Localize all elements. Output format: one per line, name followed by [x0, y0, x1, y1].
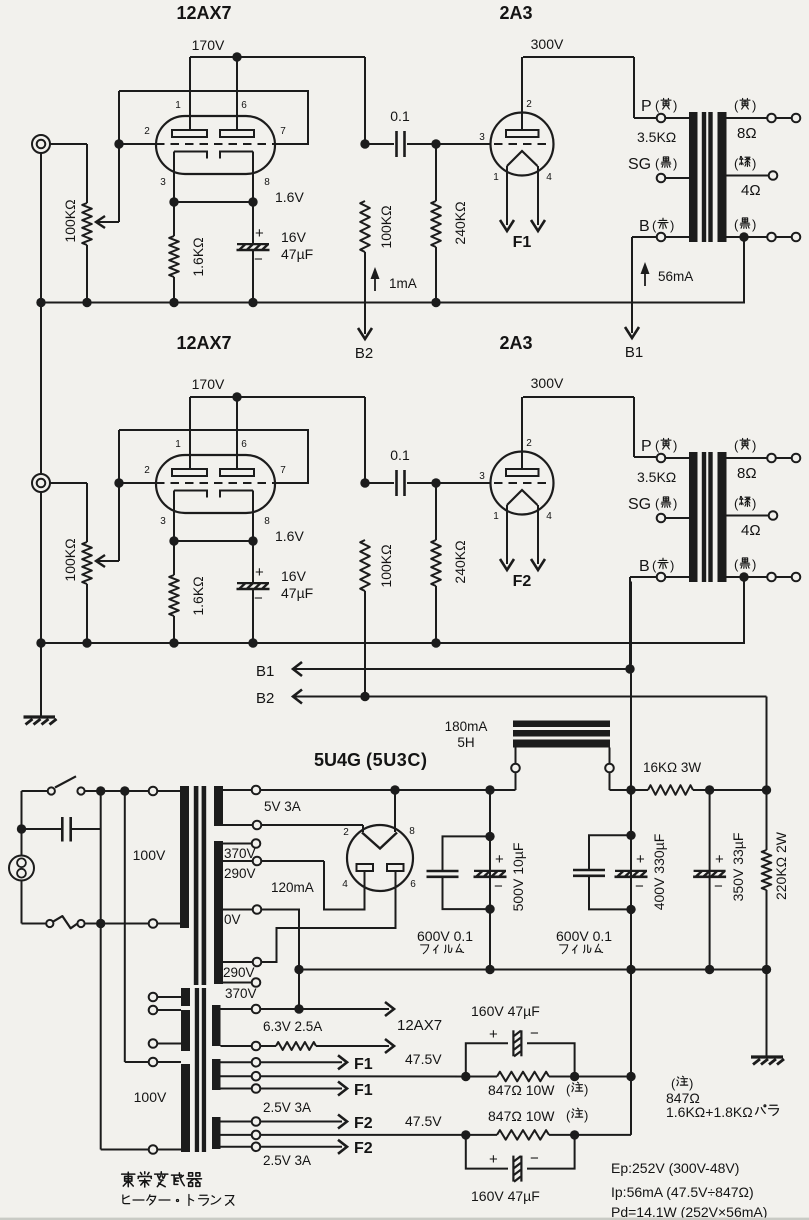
capacitor C2 0.1 coupling	[397, 470, 405, 496]
wire plate lead pin1 ch1	[189, 57, 191, 130]
junction hum1 left	[461, 1072, 470, 1081]
wire grid tie loop pins 2-7 ch1	[119, 91, 308, 144]
svg-text:): )	[752, 496, 756, 511]
terminal HT 6.3V top	[252, 1005, 261, 1014]
junction hum2 right	[570, 1130, 579, 1139]
terminal OPT2 B	[657, 573, 666, 582]
wire plate node drop ch1	[364, 57, 366, 144]
junction 2A3 grid node ch1	[431, 139, 440, 148]
resistor RL1 100K plate load body	[360, 201, 370, 252]
svg-text:370V: 370V	[224, 846, 256, 861]
tube V3 2A3 filament	[507, 151, 538, 166]
note mark RH1	[566, 1082, 588, 1097]
svg-text:(: (	[734, 496, 739, 511]
wire filament lead pin1 ch1	[506, 166, 508, 225]
wire choke right lead down	[609, 772, 611, 790]
svg-text:4: 4	[546, 511, 552, 522]
terminal OPT1 8ohm	[767, 114, 776, 123]
svg-text:2: 2	[526, 438, 532, 449]
wire OPT1 SG to winding	[666, 177, 690, 179]
svg-text:2: 2	[144, 126, 150, 137]
ground symbol main earth	[24, 717, 57, 725]
svg-text:47.5V: 47.5V	[405, 1113, 442, 1129]
tube V1 12AX7 grid dashed	[156, 143, 275, 145]
junction bus Rk ch1	[169, 298, 178, 307]
junction pin8 drop	[390, 785, 399, 794]
wire fuse to transformer primary bottom	[85, 923, 149, 925]
svg-text:F2: F2	[354, 1140, 373, 1157]
wire OPT2 B terminal to B1 drop	[630, 576, 657, 578]
junction B2 node	[762, 785, 771, 794]
terminal HT primary bottom	[149, 1145, 158, 1154]
junction 330uF on ground bus	[626, 965, 635, 974]
arrow filament F2 left	[500, 559, 514, 570]
svg-text:8: 8	[264, 516, 270, 527]
wire filament lead pin4 ch1	[537, 166, 539, 225]
svg-text:600V 0.1: 600V 0.1	[556, 928, 612, 944]
wire grid tie loop pins 2-7 ch2	[119, 430, 308, 483]
capacitor Ck1 47uF	[237, 244, 270, 250]
svg-text:0V: 0V	[224, 912, 241, 927]
wire heater resistor to arrow	[316, 1045, 389, 1047]
junction film cap2 top	[626, 831, 635, 840]
terminal PT 0V center tap	[253, 905, 262, 914]
svg-text:−: −	[714, 878, 723, 895]
input jack J2	[32, 474, 50, 492]
svg-text:350V 33µF: 350V 33µF	[730, 833, 746, 902]
arrow 6.3V to 12AX7 heaters top	[385, 1002, 394, 1016]
svg-text:2: 2	[526, 99, 532, 110]
switch SW power	[48, 776, 85, 794]
wire OPT2 B down to B1 line	[629, 577, 631, 669]
junction grid node ch2	[114, 478, 123, 487]
svg-text:170V: 170V	[192, 376, 225, 392]
svg-text:0.1: 0.1	[390, 447, 410, 463]
label OPT2 P yellow	[655, 438, 677, 453]
svg-text:(: (	[655, 496, 660, 511]
wire C1 to 2A3 grid node	[407, 143, 436, 145]
wire plate to C2 coupling	[365, 482, 394, 484]
svg-text:47µF: 47µF	[281, 246, 313, 262]
wire jack J2 sleeve to ground bus	[40, 492, 42, 643]
svg-text:370V: 370V	[225, 986, 257, 1001]
terminal HT tap unused 1	[149, 993, 158, 1002]
arrow B2 to channels	[293, 690, 302, 704]
output transformer T2 secondary winding bar	[718, 112, 727, 242]
resistor RH2 847ohm body	[497, 1130, 549, 1140]
wire to heater primary top	[125, 1061, 149, 1063]
capacitor line snubber	[62, 817, 70, 842]
tube V4 2A3 envelope	[491, 452, 554, 515]
wire 300V rail drop to OPT P ch1	[633, 57, 635, 118]
AC plug symbol	[9, 856, 34, 881]
svg-text:12AX7: 12AX7	[397, 1017, 442, 1034]
svg-text:1: 1	[175, 439, 181, 450]
wire cathode junction row ch2	[174, 540, 253, 542]
wire grid node to pin2 ch2	[119, 482, 156, 484]
wire film cap1 bottom loop	[443, 877, 491, 909]
wire AC branch vertical left	[100, 791, 102, 1150]
wire choke left lead up	[515, 748, 517, 764]
wire OPT1 common to ground bus	[743, 242, 745, 303]
wire OPT2 common tap	[727, 576, 768, 578]
svg-text:F1: F1	[513, 234, 532, 251]
svg-text:1: 1	[175, 100, 181, 111]
wire Ck1 top lead	[252, 202, 254, 243]
svg-text:2: 2	[144, 465, 150, 476]
wire Rg2 top lead	[435, 483, 437, 540]
terminal HT F1 top	[252, 1058, 261, 1067]
wire RL2 bottom to B2 line	[364, 591, 366, 697]
wire OPT2 B to winding	[666, 576, 690, 578]
svg-text:3: 3	[160, 177, 166, 188]
wire 300V rail ch2	[523, 396, 634, 398]
svg-text:+: +	[255, 564, 264, 581]
wire snubber cap right lead	[72, 828, 101, 830]
wire wiper VR1	[98, 221, 119, 223]
wire choke out to B1 node	[610, 789, 632, 791]
wire hum1 cap left	[466, 1043, 508, 1076]
wire F1 bottom	[260, 1088, 342, 1090]
terminal OPT2 4ohm	[769, 511, 778, 520]
wire OPT2 common to ground bus	[743, 582, 745, 644]
wire B2 riser	[766, 697, 768, 791]
resistor Rg2 240K body	[431, 540, 441, 586]
wire F1 center tap to hum network	[260, 1075, 466, 1077]
output transformer T2 primary winding bar	[689, 112, 698, 242]
terminal PT 5V bottom	[253, 821, 262, 830]
wire 0V center tap to ground and heater	[261, 910, 299, 1010]
svg-text:160V 47µF: 160V 47µF	[471, 1188, 540, 1204]
svg-text:−: −	[530, 1025, 539, 1042]
svg-text:16V: 16V	[281, 229, 307, 245]
svg-text:47.5V: 47.5V	[405, 1051, 442, 1067]
svg-text:(: (	[734, 217, 739, 232]
wire AC bottom to fuse	[22, 923, 47, 925]
svg-text:8Ω: 8Ω	[737, 125, 757, 142]
wire RL1 bottom to B2 tail	[364, 252, 366, 334]
junction bus jack ch1	[36, 298, 45, 307]
svg-text:0.1: 0.1	[390, 108, 410, 124]
tube V1 12AX7 plates	[172, 130, 254, 137]
tube V3 2A3 grid dashed	[494, 143, 550, 145]
junction 2A3 grid node ch2	[431, 478, 440, 487]
wire OPT1 common out	[776, 236, 792, 238]
svg-text:(: (	[671, 1076, 676, 1091]
svg-text:(: (	[652, 218, 657, 233]
junction 6.3V grounded side	[294, 1004, 303, 1013]
junction cathode pin3 ch2	[169, 536, 178, 545]
svg-text:B: B	[639, 558, 650, 575]
svg-text:8: 8	[409, 826, 415, 837]
junction OPT2 common ground	[739, 572, 748, 581]
svg-text:3: 3	[479, 471, 485, 482]
wire pot VR2 bottom to ground bus	[86, 584, 88, 643]
svg-text:): )	[752, 98, 756, 113]
wire Rk1 top lead	[173, 202, 175, 236]
svg-text:400V 330µF: 400V 330µF	[651, 834, 667, 911]
svg-text:1: 1	[493, 172, 499, 183]
svg-text:): )	[752, 156, 756, 171]
svg-text:+: +	[636, 851, 645, 868]
svg-text:290V: 290V	[224, 866, 256, 881]
output transformer T2 core	[702, 112, 713, 242]
svg-text:3: 3	[479, 132, 485, 143]
terminal OPT1 SG	[657, 174, 666, 183]
label heater transformer maker	[122, 1172, 202, 1187]
junction OPT1 common ground	[739, 232, 748, 241]
wire B2 distribution line	[293, 696, 767, 698]
terminal PT 5V top	[252, 786, 261, 795]
tube V5 5U4G plates	[357, 864, 404, 871]
label OPT2 sec green	[734, 496, 756, 511]
svg-text:56mA: 56mA	[658, 269, 693, 284]
wire B1 riser OPT2-B to B1 line	[630, 582, 632, 665]
junction bus pot ch1	[82, 298, 91, 307]
tube V2 12AX7 grid dashed	[156, 482, 275, 484]
resistor Rk2 1.6K body	[169, 575, 179, 616]
junction RL2 on B2 line	[360, 692, 369, 701]
terminal choke right	[605, 764, 614, 773]
tube V1 12AX7 cathodes	[174, 152, 253, 159]
svg-text:500V 10µF: 500V 10µF	[510, 843, 526, 912]
label OPT2 B red	[652, 558, 674, 573]
wire jack J1 sleeve to ground bus	[40, 153, 42, 303]
svg-text:+: +	[495, 851, 504, 868]
wire snubber cap left lead	[22, 828, 62, 830]
label CM1 film	[421, 944, 464, 953]
tube V4 2A3 plate	[506, 469, 539, 476]
svg-text:120mA: 120mA	[271, 880, 314, 895]
terminal OPT2 speaker+	[792, 454, 801, 463]
wire plate lead pin1 ch2	[189, 397, 191, 469]
arrow filament F1 right	[531, 220, 545, 231]
wire to heater primary bottom	[101, 1149, 149, 1151]
tube V3 2A3 plate	[506, 130, 539, 137]
wire grid node to 2A3 ch1	[436, 143, 490, 145]
wire Rg2 bottom lead	[435, 586, 437, 643]
wire pot VR1 bottom to ground bus	[86, 245, 88, 303]
wire OPT2 common out	[776, 576, 792, 578]
capacitor CH2 160V 47uF	[513, 1156, 521, 1182]
wire B1 distribution line	[293, 668, 630, 670]
svg-text:12AX7: 12AX7	[176, 333, 231, 353]
svg-text:240KΩ: 240KΩ	[452, 201, 468, 244]
capacitor CM1 600V 0.1 film	[427, 871, 459, 877]
junction plate node ch2	[360, 478, 369, 487]
terminal PT 370V top	[252, 839, 261, 848]
svg-text:6: 6	[410, 879, 416, 890]
wire Ck2 bottom lead	[252, 590, 254, 643]
svg-text:+: +	[489, 1026, 498, 1043]
potentiometer VR1 wiper arrow	[96, 216, 105, 228]
svg-text:5H: 5H	[457, 735, 474, 750]
arrow to B1 supply ch1	[625, 327, 639, 338]
svg-text:): )	[752, 217, 756, 232]
junction film cap1 top	[485, 832, 494, 841]
wire PSU ground drop to earth	[766, 970, 768, 1057]
wire plate lead pin6 ch1	[236, 57, 238, 130]
resistor R16 16K body	[648, 785, 693, 795]
power transformer PT core	[194, 786, 206, 985]
junction cathode pin3 ch1	[169, 197, 178, 206]
wire filament lead pin1 ch2	[506, 505, 508, 564]
svg-text:P: P	[641, 98, 652, 115]
wire plate lead pin6 ch2	[236, 397, 238, 469]
svg-text:6: 6	[241, 439, 247, 450]
svg-text:160V 47µF: 160V 47µF	[471, 1003, 540, 1019]
svg-text:(: (	[652, 558, 657, 573]
wire hum1 cap right	[527, 1043, 575, 1076]
svg-text:16KΩ 3W: 16KΩ 3W	[643, 760, 701, 775]
wire OPT1 common tap	[727, 236, 768, 238]
svg-text:2A3: 2A3	[499, 333, 532, 353]
wire 16K to B2 node	[693, 789, 767, 791]
arrow to B2 supply ch1	[358, 328, 372, 339]
wire OPT1 P to winding	[666, 117, 690, 119]
terminal OPT2 8ohm	[767, 454, 776, 463]
wire ground spine ch2 bus to earth	[40, 643, 42, 717]
svg-text:2: 2	[343, 827, 349, 838]
terminal PT primary top	[149, 787, 158, 796]
capacitor CH1 160V 47uF	[513, 1030, 521, 1056]
label OPT2 sec black	[734, 557, 756, 572]
arrow filament F1 left	[500, 220, 514, 231]
terminal HT tap unused 3	[149, 1039, 158, 1048]
wire B2 node to 220K	[766, 790, 768, 850]
svg-text:100V: 100V	[134, 1089, 167, 1105]
svg-text:−: −	[530, 1150, 539, 1167]
heater transformer HT core	[195, 988, 206, 1152]
arrow F1 top	[338, 1055, 347, 1069]
wire B1 riser B1 line to choke node	[630, 674, 632, 786]
terminal OPT2 P	[657, 454, 666, 463]
svg-text:4Ω: 4Ω	[741, 522, 761, 539]
input jack J1	[32, 135, 50, 153]
wire to OPT1 P terminal	[634, 117, 657, 119]
label OPT1 sec yellow	[734, 98, 756, 113]
svg-text:): )	[673, 98, 677, 113]
wire choke left lead down	[515, 772, 517, 790]
wire Ck1 bottom lead	[252, 251, 254, 303]
svg-text:100KΩ: 100KΩ	[378, 544, 394, 587]
svg-text:(: (	[655, 438, 660, 453]
note mark RH2	[566, 1108, 588, 1123]
terminal OPT1 P	[657, 114, 666, 123]
svg-text:4: 4	[546, 172, 552, 183]
svg-text:3: 3	[160, 516, 166, 527]
terminal HT F1 center tap	[252, 1072, 261, 1081]
wire hum1 to ground riser	[575, 1076, 631, 1078]
svg-text:4: 4	[342, 879, 348, 890]
terminal OPT1 speaker-	[792, 233, 801, 242]
svg-text:1mA: 1mA	[389, 276, 417, 291]
junction 33uF cap node	[705, 785, 714, 794]
svg-text:+: +	[489, 1151, 498, 1168]
wire 6.3V bottom lead	[260, 1045, 276, 1047]
junction B1 node	[626, 785, 635, 794]
wire jack J1 to pot top	[50, 143, 87, 145]
svg-text:1.6V: 1.6V	[275, 189, 304, 205]
wire hum2 to ground riser	[575, 1134, 631, 1136]
heater transformer HT secondary winding bars	[212, 1005, 221, 1149]
wire jack J2 to pot top	[50, 482, 87, 484]
wire switch to transformer primary top	[85, 790, 149, 792]
wire hum2 cap left	[466, 1135, 508, 1169]
wire 6.3V top to 12AX7 heaters	[260, 1008, 389, 1010]
junction film cap1 bottom	[485, 904, 494, 913]
wire F1 top	[260, 1061, 342, 1063]
output transformer T3 primary winding bar	[689, 452, 698, 582]
wire wiper VR2	[98, 560, 119, 562]
capacitor C1 0.1 coupling	[397, 131, 405, 157]
svg-text:−: −	[635, 878, 644, 895]
arrow F2 bottom	[338, 1140, 347, 1154]
wire wiper to grid node ch1	[118, 144, 120, 222]
svg-text:8: 8	[264, 177, 270, 188]
power transformer PT HV winding bar	[214, 841, 223, 984]
wire AC hot from plug	[21, 791, 23, 856]
wire ground bus ch2	[41, 642, 745, 644]
junction film cap2 bottom	[626, 905, 635, 914]
svg-text:SG: SG	[628, 156, 651, 173]
svg-text:7: 7	[280, 126, 286, 137]
junction 170V rail pin6 ch1	[232, 52, 241, 61]
label OPT1 P yellow	[655, 98, 677, 113]
tube V1a 12AX7 envelope	[156, 116, 275, 174]
terminal HT F2 center tap	[252, 1131, 261, 1140]
svg-text:220KΩ 2W: 220KΩ 2W	[773, 831, 789, 900]
wire Rg1 bottom lead	[435, 247, 437, 303]
choke CH 5H winding bars	[513, 721, 610, 748]
wire choke right lead up	[609, 748, 611, 764]
svg-text:1.6V: 1.6V	[275, 528, 304, 544]
wire film cap2 top loop	[589, 835, 631, 870]
svg-text:F2: F2	[513, 573, 532, 590]
junction 0V on PSU ground bus	[294, 965, 303, 974]
potentiometer VR2 100K body	[82, 542, 92, 584]
scan edge artifact bottom	[0, 1218, 809, 1220]
svg-text:8Ω: 8Ω	[737, 465, 757, 482]
junction CF1 ground	[485, 965, 494, 974]
resistor heater series body	[276, 1042, 316, 1050]
svg-text:847Ω 10W: 847Ω 10W	[488, 1082, 555, 1098]
wire grid node to 2A3 ch2	[436, 482, 490, 484]
svg-text:170V: 170V	[192, 37, 225, 53]
svg-text:600V 0.1: 600V 0.1	[417, 928, 473, 944]
wire cathode junction row ch1	[174, 201, 253, 203]
wire rectifier output 5V winding line	[260, 789, 511, 791]
resistor RL2 100K plate load body	[360, 540, 370, 591]
capacitor CM2 600V 0.1 film	[573, 870, 605, 876]
junction bus Rk ch2	[169, 638, 178, 647]
wire grid loop left drop ch2	[118, 430, 120, 483]
svg-text:): )	[670, 218, 674, 233]
junction AC top snubber	[96, 786, 105, 795]
wire ground bus ch1	[41, 302, 745, 304]
wire plate to C1 coupling	[365, 143, 394, 145]
terminal PT 290V top	[253, 857, 262, 866]
svg-text:(: (	[734, 98, 739, 113]
output transformer T3 core	[702, 452, 713, 582]
svg-text:): )	[673, 496, 677, 511]
svg-text:SG: SG	[628, 496, 651, 513]
svg-text:): )	[584, 1082, 588, 1097]
svg-text:F1: F1	[354, 1056, 373, 1073]
junction bus Rg ch2	[431, 638, 440, 647]
svg-text:B: B	[639, 218, 650, 235]
wire 2A3 plate lead pin2 ch2	[521, 397, 523, 469]
